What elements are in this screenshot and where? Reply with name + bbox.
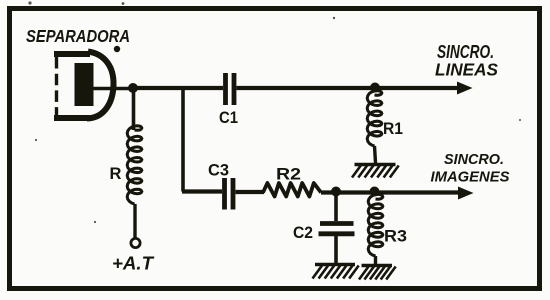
svg-text:+A.T: +A.T — [112, 254, 155, 274]
tube U1 envelope arc — [87, 52, 114, 119]
tube U1 bottom bar — [54, 115, 90, 121]
svg-text:R2: R2 — [276, 166, 301, 184]
scan specks — [28, 1, 521, 223]
resistor R3 coil — [368, 194, 383, 256]
resistor R coil — [127, 126, 142, 204]
pointer dot — [114, 46, 120, 52]
tube U1 (separadora) top bar — [54, 51, 90, 57]
ground G1 under R1 — [355, 163, 396, 166]
capacitor C2 plates — [319, 224, 355, 234]
wire tube output to node — [93, 87, 131, 91]
svg-text:R: R — [110, 165, 122, 183]
wire branch down from upper line — [181, 88, 185, 192]
ground G2 under C2 — [315, 263, 355, 266]
svg-text:C2: C2 — [293, 224, 313, 242]
capacitor C3 plates — [225, 178, 234, 210]
wire R3 to ground — [374, 256, 377, 264]
arrowhead sincro imagenes — [458, 187, 474, 200]
arrowhead sincro lineas — [457, 82, 473, 95]
resistor R1 coil — [367, 91, 382, 146]
capacitor C1 plates — [226, 73, 235, 105]
wire node A down to R — [132, 88, 136, 130]
wire R2 to arrow (sincro imagenes) — [321, 190, 460, 194]
node C2 junction dot — [331, 187, 341, 197]
node A junction dot — [128, 83, 138, 93]
svg-text:SINCRO.: SINCRO. — [444, 152, 504, 168]
wire C1 to arrow (sincro lineas) — [237, 86, 460, 90]
svg-text:C1: C1 — [219, 109, 238, 127]
svg-text:IMAGENES: IMAGENES — [431, 169, 510, 186]
wire C3 to R2 — [236, 190, 265, 194]
svg-text:LINEAS: LINEAS — [435, 60, 498, 80]
node R1 junction dot — [370, 83, 380, 93]
wire R to terminal — [133, 204, 136, 239]
svg-text:C3: C3 — [208, 162, 229, 180]
tube U1 plate rectangle — [75, 63, 94, 106]
wire R1 to ground — [375, 146, 376, 163]
resistor R2 zigzag — [263, 183, 321, 197]
terminal +A.T circle — [131, 238, 140, 247]
tube U1 cathode dashed line — [55, 57, 58, 117]
wire node to C2 top plate — [334, 192, 338, 222]
wire C2 bottom plate to ground — [334, 236, 338, 263]
svg-text:R1: R1 — [383, 120, 403, 138]
ground G3 under R3 — [362, 264, 393, 267]
svg-text:SEPARADORA: SEPARADORA — [26, 26, 130, 46]
wire lower line to C3 — [182, 189, 222, 193]
wire upper line node to C1 — [132, 86, 223, 90]
svg-text:R3: R3 — [384, 228, 407, 246]
node R3 junction dot — [370, 187, 380, 197]
